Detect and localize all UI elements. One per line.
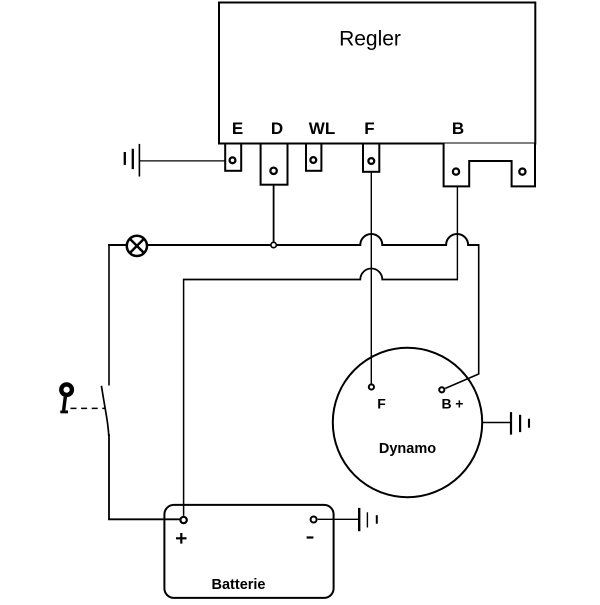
wire from D terminal down to junction	[273, 185, 275, 245]
svg-text:+: +	[455, 396, 463, 412]
dynamo terminal F	[369, 384, 374, 389]
battery - terminal	[311, 517, 317, 523]
svg-text:F: F	[364, 119, 374, 138]
wire: left vertical from lamp corner down to switch	[108, 244, 110, 386]
terminal lug F	[363, 144, 379, 172]
svg-text:E: E	[232, 119, 243, 138]
wire from B terminal down to lower bus	[456, 186, 458, 279]
junction node on top bus at D wire	[271, 242, 276, 247]
wire from F terminal down to dynamo F	[370, 172, 372, 384]
wire: riser to dynamo B+ (vertical drop and diagonal)	[445, 244, 478, 388]
terminal lug E	[225, 144, 241, 171]
ground symbol at dynamo	[511, 412, 529, 435]
terminal lug B (double)	[444, 144, 535, 187]
wire: top bus from lamp to drop corner with bridges over F and B wires	[148, 234, 479, 245]
wire battery - to ground	[318, 518, 359, 520]
regulator box U1 "Regler"	[219, 3, 535, 144]
ground symbol at battery	[359, 508, 377, 531]
terminal lug WL	[306, 144, 321, 171]
svg-text:F: F	[377, 396, 386, 412]
indicator lamp H1	[127, 236, 147, 256]
key symbol	[60, 384, 72, 411]
svg-text:Regler: Regler	[339, 28, 401, 51]
label +	[176, 533, 187, 544]
battery box	[164, 505, 333, 598]
dynamo terminal B+	[439, 387, 444, 392]
wire: lower bus from left riser to B wire with bridge over F wire	[184, 269, 459, 280]
battery + terminal	[180, 517, 186, 523]
label -	[307, 536, 314, 538]
wire: left riser down to battery +	[183, 279, 185, 516]
svg-text:B: B	[442, 396, 452, 412]
svg-text:D: D	[271, 119, 283, 138]
wire E terminal to ground	[139, 160, 225, 162]
terminal lug D	[261, 144, 288, 185]
wire: switch to battery + corner	[109, 434, 180, 519]
wire dynamo to ground	[482, 422, 511, 424]
ignition switch S1 blade	[101, 386, 108, 436]
ground symbol at E terminal	[125, 144, 140, 177]
svg-text:Batterie: Batterie	[212, 577, 266, 593]
svg-text:WL: WL	[309, 119, 335, 138]
dynamo G1	[333, 348, 482, 497]
svg-text:Dynamo: Dynamo	[379, 441, 436, 457]
svg-text:B: B	[452, 119, 464, 138]
dashed actuator line key to switch	[71, 407, 105, 409]
wire segment left of lamp	[108, 244, 126, 246]
